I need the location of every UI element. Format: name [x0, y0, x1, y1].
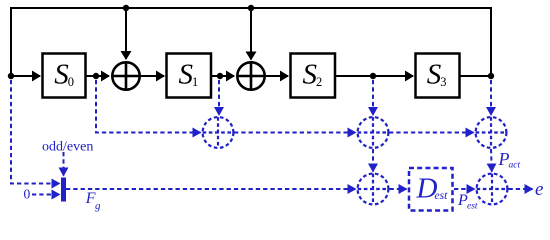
svg-text:1: 1 [192, 75, 198, 89]
svg-text:act: act [509, 161, 521, 171]
svg-text:0: 0 [68, 75, 74, 89]
svg-text:e: e [535, 179, 543, 200]
svg-text:g: g [95, 200, 101, 212]
svg-text:2: 2 [316, 75, 322, 89]
svg-text:0: 0 [24, 187, 31, 202]
svg-text:3: 3 [440, 75, 446, 89]
svg-text:est: est [467, 202, 478, 212]
svg-text:est: est [435, 190, 449, 202]
svg-text:odd/even: odd/even [42, 140, 93, 155]
